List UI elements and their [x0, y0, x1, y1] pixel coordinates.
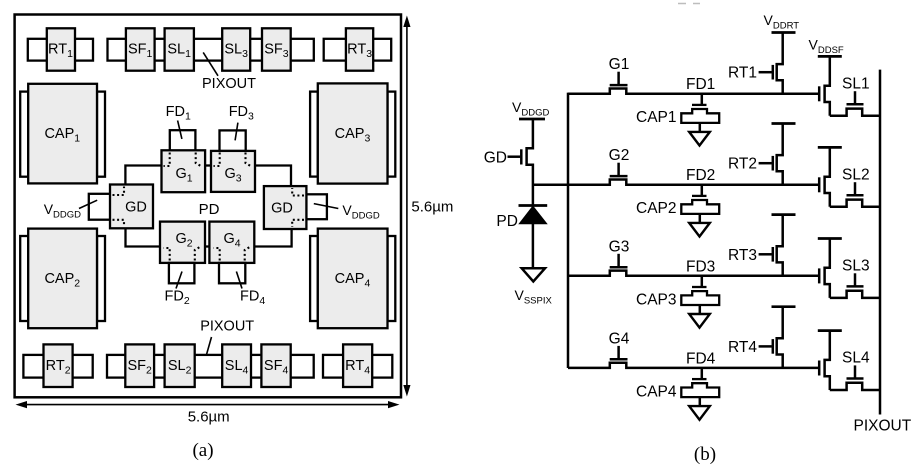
FD3 leader [235, 123, 238, 141]
wire SF4 to PIXOUT bus [830, 383, 880, 390]
svg-text:CAP1: CAP1 [636, 109, 677, 126]
transistor SF1 gate [818, 86, 821, 101]
svg-text:CAP2: CAP2 [636, 200, 677, 217]
transistor SL2 gate [847, 194, 864, 197]
svg-text:5.6µm: 5.6µm [188, 409, 230, 426]
transfer gate G4 box [209, 222, 254, 263]
transistor RT3 gate box [346, 28, 373, 70]
FD4 diffusion tab [219, 263, 245, 283]
transistor SF3 gate [818, 268, 821, 283]
VDDRT supply bar row 4 [772, 305, 796, 308]
transistor SL2 gate box [165, 344, 195, 387]
transistor RT3 active region [324, 39, 392, 61]
transistor RT1 active region [28, 39, 93, 61]
transistor SL3 gate box [222, 28, 250, 70]
FD1 leader [178, 121, 182, 139]
capacitor CAP1 body [28, 84, 97, 184]
wire G3 to GD-right [255, 166, 291, 187]
contact dots G4 [214, 248, 220, 261]
capacitor CAP2 body [681, 200, 719, 214]
transistor RT4 channel [777, 307, 783, 368]
transistor SF4 gate box [261, 344, 290, 387]
svg-text:PIXOUT: PIXOUT [200, 319, 254, 335]
transistor RT2 gate [759, 162, 772, 165]
wire SF1 to PIXOUT bus [830, 109, 880, 116]
svg-text:RT3: RT3 [728, 247, 757, 264]
vertical wire PIXOUT bus [879, 70, 882, 415]
svg-text:G2: G2 [609, 147, 630, 164]
VDDGD supply bar [519, 118, 545, 121]
GD gate left tab [89, 194, 111, 220]
wire SF2 to PIXOUT bus [830, 200, 880, 207]
wire FD4 row [568, 363, 819, 368]
transistor GD gate [520, 149, 523, 164]
transistor RT2 gate box [44, 344, 73, 387]
VDDSF supply bar row 1 [818, 55, 842, 58]
transistor SF1 gate box [126, 28, 155, 70]
contact dots G3 [214, 153, 220, 167]
transistor SF2 gate [818, 177, 821, 192]
vertical dimension arrow 5.6um [406, 20, 408, 392]
transfer gate G2 box [160, 222, 205, 263]
svg-text:GD: GD [125, 200, 147, 216]
svg-text:(a): (a) [192, 440, 213, 461]
transistor RT2 channel [777, 124, 783, 185]
horizontal dimension arrow 5.6um [20, 404, 395, 406]
transistor RT4 gate [759, 345, 772, 348]
transistor RT1 gate [759, 71, 772, 74]
capacitor CAP2 top plate [692, 195, 707, 197]
node FD2 stub [701, 185, 704, 196]
VDDRT supply bar row 1 [772, 31, 796, 34]
capacitor CAP2 body [28, 229, 97, 329]
CAP3 substrate stub [699, 305, 702, 314]
transistor SF3 channel [825, 239, 830, 298]
svg-text:SL4: SL4 [842, 350, 870, 367]
wire G4 to GD-right [254, 229, 291, 247]
svg-text:SL3: SL3 [842, 258, 870, 275]
svg-text:G3: G3 [609, 238, 630, 255]
transistor RT1 channel [777, 33, 783, 94]
vertical wire G bus [567, 93, 570, 368]
transfer gate G1 box [162, 150, 206, 192]
wire FD1 row [568, 89, 819, 94]
contact dots GD left [113, 187, 125, 196]
faint crop artifact (top) [678, 3, 700, 5]
CAP3 substrate arrow [689, 314, 710, 328]
PIXOUT leader (top) [203, 52, 218, 75]
panel (a) pixel-layout outer boundary [15, 15, 401, 398]
capacitor CAP1 body [681, 109, 719, 123]
svg-text:FD2: FD2 [686, 167, 715, 184]
transistor RT4 active region [323, 355, 392, 378]
wire G1 to G3 [205, 164, 211, 166]
transistor RT1 gate box [47, 28, 75, 70]
CAP2 substrate stub [699, 214, 702, 223]
bottom shared active region (SF2 SL2 SL4 SF4) [107, 355, 314, 378]
transistor G3 gate [610, 266, 628, 269]
transistor RT4 gate box [343, 344, 372, 387]
capacitor CAP4 body [681, 383, 719, 397]
VDDGD left leader [79, 200, 97, 208]
transistor RT2 active region [23, 355, 92, 378]
CAP2 substrate arrow [689, 223, 710, 237]
FD1 diffusion tab [170, 130, 196, 151]
svg-text:5.6µm: 5.6µm [411, 199, 453, 216]
FD3 diffusion tab [220, 130, 246, 151]
svg-text:SL1: SL1 [842, 75, 870, 92]
wire GD-left to G1 [125, 166, 161, 185]
svg-text:PD: PD [496, 213, 518, 230]
GD gate right tab [306, 194, 327, 219]
wire PD to VSSPIX [532, 224, 535, 269]
capacitor CAP4 top plate [692, 378, 707, 380]
VDDRT supply bar row 2 [772, 122, 796, 125]
transfer gate G3 box [211, 151, 255, 192]
svg-text:(b): (b) [694, 444, 716, 465]
svg-text:PIXOUT: PIXOUT [202, 76, 256, 92]
svg-text:PD: PD [199, 201, 220, 218]
VDDSF supply bar row 3 [818, 237, 842, 240]
contact dots G2 [164, 248, 170, 261]
GD gate right box [264, 186, 307, 229]
transistor SF3 gate box [262, 28, 291, 70]
PIXOUT leader (bottom) [203, 337, 211, 366]
transistor SF2 channel [825, 147, 830, 206]
VSSPIX arrow [522, 268, 545, 281]
node FD1 stub [701, 94, 704, 105]
capacitor CAP4 body [318, 229, 388, 329]
contact dots G1 [164, 153, 170, 167]
GD gate left box [110, 185, 153, 229]
svg-text:FD4: FD4 [686, 350, 716, 367]
transistor SF1 channel [825, 56, 830, 115]
contact dots GD right [292, 188, 304, 196]
VDDRT supply bar row 3 [772, 213, 796, 216]
node FD4 stub [701, 368, 704, 379]
VDDSF supply bar row 4 [818, 329, 842, 332]
capacitor CAP3 body [318, 83, 388, 183]
transistor SF4 gate [818, 361, 821, 376]
svg-text:FD1: FD1 [686, 76, 715, 93]
top shared active region (SF1 SL1 SL3 SF3) [108, 39, 314, 61]
svg-text:FD3: FD3 [686, 258, 715, 275]
CAP4 substrate arrow [689, 406, 710, 420]
transistor G1 gate [610, 84, 628, 87]
VDDGD right leader [314, 204, 339, 209]
wire FD3 row [568, 271, 819, 276]
svg-text:RT4: RT4 [728, 339, 757, 356]
transistor SL3 gate [847, 285, 864, 288]
transistor SL4 gate [847, 377, 864, 380]
FD4 leader [236, 272, 242, 289]
photodiode PD [519, 204, 548, 207]
transistor RT3 channel [777, 215, 783, 276]
transistor GD channel [527, 119, 533, 206]
svg-text:CAP4: CAP4 [636, 383, 677, 400]
CAP1 substrate stub [699, 123, 702, 132]
capacitor CAP1 side plates [20, 92, 28, 177]
svg-text:GD: GD [484, 150, 507, 167]
transistor SF4 channel [825, 331, 830, 390]
capacitor CAP3 side plates [310, 92, 318, 177]
svg-text:CAP3: CAP3 [636, 291, 677, 308]
FD2 leader [176, 272, 182, 289]
transistor G2 gate [610, 175, 628, 178]
transistor G4 gate [610, 358, 628, 361]
transistor SL4 gate box [222, 344, 251, 387]
wire FD2 row [568, 180, 819, 185]
capacitor CAP1 top plate [692, 104, 707, 106]
transistor SL1 gate [847, 103, 864, 106]
capacitor CAP3 top plate [692, 286, 707, 288]
svg-text:RT2: RT2 [728, 156, 757, 173]
node FD3 stub [701, 276, 704, 287]
CAP4 substrate stub [699, 397, 702, 406]
wire PD node to G column [533, 183, 568, 186]
VDDSF supply bar row 2 [818, 146, 842, 149]
wire G2 to G4 [205, 245, 209, 247]
transistor SF2 gate box [125, 344, 154, 387]
transistor RT3 gate [759, 253, 772, 256]
svg-text:RT1: RT1 [728, 65, 757, 82]
svg-text:SL2: SL2 [842, 166, 870, 183]
svg-text:G1: G1 [609, 56, 630, 73]
svg-text:G4: G4 [609, 330, 630, 347]
CAP1 substrate arrow [689, 132, 710, 146]
FD2 diffusion tab [169, 263, 195, 283]
transistor SL1 gate box [165, 28, 194, 70]
wire SF3 to PIXOUT bus [830, 291, 880, 298]
capacitor CAP3 body [681, 291, 719, 305]
capacitor CAP4 side plates [310, 236, 318, 321]
svg-text:GD: GD [271, 201, 293, 217]
svg-text:PIXOUT: PIXOUT [854, 418, 912, 435]
capacitor CAP2 side plates [20, 236, 28, 321]
wire GD-left to G2 [126, 228, 161, 246]
